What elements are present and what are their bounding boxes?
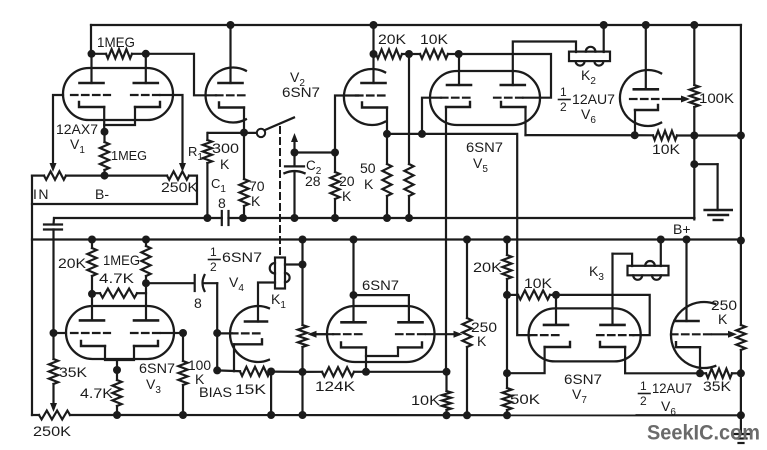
resistor R1 300K	[203, 133, 212, 218]
dashed link switch-K1	[279, 127, 281, 257]
svg-text:70: 70	[249, 178, 265, 194]
wire LL left grid lead	[312, 333, 334, 335]
label 250K (bottom left)	[33, 423, 72, 439]
wire 15K right	[270, 370, 271, 372]
wire 124K rail right	[366, 371, 447, 373]
relay K2	[569, 47, 610, 66]
node center pot on bus3	[463, 236, 471, 244]
wire cathode rail to V7a grid	[387, 134, 530, 335]
tube V3 left cathode	[81, 341, 105, 346]
tube 6SN7 LL right cathode	[398, 342, 422, 347]
wire V1 plate to V2a grid	[146, 54, 216, 96]
wire BIAS to 15K	[217, 369, 240, 372]
svg-text:R1: R1	[188, 144, 203, 163]
potentiometer 250K center body	[462, 318, 471, 347]
node LL plates junction	[350, 291, 358, 299]
label 35K (left)	[59, 364, 88, 380]
wire V1b grid lead	[173, 95, 183, 167]
resistor 100K (grid leak)	[178, 333, 187, 415]
node B- junction	[101, 172, 109, 180]
label 12AU7 (top)	[572, 91, 615, 107]
capacitor C2	[285, 153, 305, 219]
wire bus4	[32, 414, 741, 416]
tube V8 envelope	[671, 302, 715, 368]
label 100K	[699, 90, 735, 106]
node LL cathode junction	[362, 368, 370, 376]
arrow to switch blade	[291, 133, 298, 153]
label 1MEG (V3)	[103, 252, 140, 268]
label 124K	[315, 378, 356, 394]
wire LL cathodes join	[366, 347, 398, 371]
node 50K on bus4	[503, 411, 511, 419]
tube V7 left plate	[544, 324, 568, 327]
node K3 on bus3	[657, 236, 665, 244]
svg-text:35K: 35K	[59, 364, 88, 380]
svg-text:V6: V6	[581, 106, 596, 126]
node right border 35K	[737, 369, 745, 377]
label 8 (C1)	[218, 195, 226, 211]
label B-	[95, 186, 109, 202]
label K (70K)	[251, 193, 261, 209]
node 15K right	[267, 368, 275, 376]
svg-text:1: 1	[640, 379, 647, 393]
svg-text:1: 1	[210, 245, 217, 259]
potentiometer 250K wiper	[179, 163, 186, 172]
wire V4 plate to K1	[258, 283, 275, 322]
label 1MEG (top)	[97, 34, 135, 50]
svg-text:28: 28	[305, 173, 321, 189]
node 50K cathode tap	[503, 369, 511, 377]
label 10K (lower)	[411, 392, 441, 408]
svg-text:2: 2	[560, 100, 567, 114]
label 10K (V6b)	[652, 141, 681, 157]
tube V6b cathode	[635, 105, 658, 110]
wire to V4 grid	[216, 283, 218, 370]
wire 100K top	[693, 25, 695, 85]
wire V7b plate to K3	[613, 254, 633, 325]
node switch junction	[240, 129, 248, 137]
tube V5 right grid	[494, 97, 540, 99]
label IN	[33, 186, 50, 202]
wire V3 cathodes join	[105, 346, 134, 370]
label V6 (bottom)	[661, 398, 676, 418]
node V2a plate on bus	[227, 21, 235, 29]
label V5	[473, 155, 488, 175]
label 1/2 (V6 top)	[559, 85, 571, 114]
wire K1 branch to bus4	[301, 372, 303, 415]
watermark SeekIC.com	[647, 421, 760, 445]
capacitor interstage left	[44, 225, 62, 334]
svg-text:K: K	[364, 176, 374, 192]
svg-text:250K: 250K	[33, 423, 72, 439]
node 20K top bus3	[503, 236, 511, 244]
potentiometer 250K body (bottom left)	[39, 411, 70, 420]
svg-text:6SN7: 6SN7	[466, 139, 503, 155]
resistor 35K (V8)	[700, 369, 741, 378]
tube V7 right cathode	[600, 342, 625, 347]
node 20K top on bus3	[88, 236, 96, 244]
resistor 10K (V7)	[507, 290, 556, 299]
tube V3 envelope	[66, 306, 174, 359]
potentiometer 250K right wiper	[712, 331, 737, 338]
wire 250K return	[32, 176, 197, 204]
potentiometer 250K body	[167, 171, 189, 179]
potentiometer 100K wiper	[663, 96, 690, 103]
node 4.7K left	[88, 290, 96, 298]
node LL plate on bus3	[350, 236, 358, 244]
tube V6b envelope	[620, 70, 661, 126]
svg-text:10K: 10K	[652, 141, 681, 157]
label R1	[188, 144, 203, 163]
svg-text:SeekIC.com: SeekIC.com	[647, 421, 760, 445]
node right border bus3	[737, 237, 745, 245]
capacitor 8 (coupling)	[195, 275, 205, 291]
svg-text:V1: V1	[70, 136, 85, 156]
wire to V5b grid	[459, 54, 551, 98]
tube V5 left grid	[441, 97, 471, 99]
node 100K on bus4	[179, 411, 187, 419]
wire center pot upper	[466, 240, 468, 319]
tube V5 right plate	[501, 84, 525, 87]
node ground tap	[690, 160, 698, 168]
wire V8 plate lead	[685, 240, 687, 322]
svg-text:V5: V5	[473, 155, 488, 175]
node center pot on bus4	[463, 411, 471, 419]
svg-text:15K: 15K	[235, 381, 267, 397]
node V2b plate on bus	[370, 21, 378, 29]
wire right border	[740, 25, 742, 416]
svg-text:K: K	[251, 193, 261, 209]
wire K1 branch lower	[301, 347, 303, 372]
node 100K on top bus	[690, 21, 698, 29]
node K1 branch on bus4	[299, 411, 307, 419]
label K (50K V2b)	[364, 176, 374, 192]
label V1	[70, 136, 85, 156]
svg-text:300: 300	[212, 140, 239, 156]
node K1 branch on bus3	[299, 236, 307, 244]
tube V2a plate	[219, 82, 243, 85]
tube V1 left plate	[80, 54, 104, 83]
svg-text:12AU7: 12AU7	[572, 91, 615, 107]
relay K3	[628, 261, 669, 280]
wire 15K drop to bus4	[270, 372, 272, 416]
label K3	[589, 263, 604, 283]
label 20K (row)	[378, 31, 407, 47]
label K1	[271, 291, 286, 311]
tube 6SN7 LL right grid	[396, 333, 426, 335]
wire V1 cathodes to 1MEG	[104, 107, 135, 132]
relay K1	[270, 258, 290, 289]
label 1MEG (V1 cathode)	[111, 148, 147, 163]
wire cross-couple to V7b grid	[556, 295, 650, 335]
label V4	[229, 274, 244, 294]
wire K2 to top bus	[603, 25, 605, 52]
node 10K top junction	[443, 368, 451, 376]
tube V3 right cathode	[134, 341, 158, 346]
node right border bus4	[737, 411, 745, 419]
label 28	[305, 173, 321, 189]
tube V1 left cathode	[79, 102, 104, 107]
label 1/2 (V4)	[209, 245, 221, 274]
node 4.7K on bus4	[113, 411, 121, 419]
wire LL plates tie	[354, 240, 409, 323]
resistor 1MEG (V3)	[141, 240, 150, 284]
tube V3 left plate	[80, 319, 104, 322]
svg-text:6SN7: 6SN7	[282, 84, 320, 100]
wire ground tap	[694, 164, 717, 210]
svg-text:10K: 10K	[524, 275, 553, 291]
svg-text:2: 2	[210, 260, 217, 274]
wire top bus	[91, 25, 741, 54]
svg-text:C1: C1	[211, 176, 226, 195]
svg-text:250K: 250K	[161, 179, 199, 195]
resistor 20K (V7)	[502, 240, 511, 295]
svg-text:K: K	[718, 311, 728, 327]
svg-text:10K: 10K	[411, 392, 441, 408]
label 50K (V7)	[510, 391, 541, 407]
svg-text:8: 8	[194, 295, 202, 311]
label B+	[673, 221, 691, 237]
wire V2b plate lead	[372, 25, 374, 83]
label 250 (center)	[471, 319, 497, 335]
node 20K left	[370, 50, 378, 58]
node V8 plate on bus3	[683, 236, 691, 244]
wire V2b grid lead	[335, 96, 358, 153]
ground symbol (bottom right)	[733, 415, 750, 443]
node 10K right	[690, 132, 698, 140]
node K2 on top bus	[600, 21, 608, 29]
tube V2b plate	[362, 82, 386, 85]
node K1 right	[299, 261, 307, 269]
wire K1 branch upper	[301, 240, 303, 326]
node cap8 line	[142, 279, 150, 287]
tube V8 plate	[675, 320, 699, 323]
resistor 50K (V2b cathode)	[382, 134, 391, 218]
potentiometer bias body	[298, 325, 307, 347]
potentiometer 250K (bottom left) wiper	[50, 403, 57, 412]
node 10K on bus4	[443, 411, 451, 419]
potentiometer 250K right body	[736, 325, 745, 350]
wire V6b cathode lead	[634, 110, 636, 135]
label 10K (row)	[420, 31, 449, 47]
svg-text:V3: V3	[146, 376, 161, 396]
svg-text:8: 8	[218, 195, 226, 211]
label 12AX7	[56, 121, 98, 137]
svg-text:B+: B+	[673, 221, 691, 237]
label V7	[572, 386, 587, 406]
wire V5b cathode lead	[524, 107, 526, 135]
svg-text:35K: 35K	[703, 378, 732, 394]
svg-text:1MEG: 1MEG	[111, 148, 147, 163]
label BIAS	[199, 384, 232, 400]
tube 6SN7 LL right plate	[399, 321, 423, 324]
wire V8 cathode lead	[699, 347, 701, 373]
wire V7b cathode lead	[625, 347, 700, 373]
wire V3b grid lead	[174, 332, 183, 334]
tube V7 envelope	[529, 308, 641, 361]
resistor 10K (lower)	[442, 372, 451, 416]
tube V7 left grid	[530, 334, 560, 336]
tube V8 grid	[671, 333, 713, 335]
potentiometer IN body	[44, 171, 66, 179]
label 250 (right)	[711, 297, 737, 313]
svg-text:1MEG: 1MEG	[103, 252, 140, 268]
tube V3 right plate	[134, 319, 158, 322]
tube V2a envelope	[206, 68, 246, 123]
wire left border	[31, 176, 33, 415]
tube V1 envelope	[63, 68, 173, 120]
node V1 plate-right junction	[142, 50, 150, 58]
node 20K/10K junction	[405, 50, 413, 58]
resistor 4.7K (plates)	[92, 289, 146, 298]
wire V5a cathode drop	[445, 107, 447, 372]
wire cap8 line	[146, 282, 217, 284]
svg-text:IN: IN	[33, 186, 50, 202]
svg-text:20K: 20K	[473, 259, 503, 275]
svg-text:20K: 20K	[58, 255, 87, 271]
tube 6SN7 LL left plate	[342, 321, 366, 324]
svg-text:6SN7: 6SN7	[362, 277, 399, 293]
label 70	[249, 178, 265, 194]
wire bus2 left end	[52, 218, 55, 225]
tube V4 grid	[231, 332, 263, 334]
tube V2a cathode	[219, 103, 244, 108]
tube V4 cathode	[234, 339, 262, 344]
svg-text:BIAS: BIAS	[199, 384, 232, 400]
tube V1 left grid	[71, 94, 110, 96]
node V8 cathode junction	[696, 369, 704, 377]
resistor junction bleeder	[404, 164, 413, 218]
svg-text:K2: K2	[581, 67, 596, 87]
tube V2b cathode	[362, 103, 387, 108]
wire V3b plate lead	[145, 283, 147, 320]
tube V5 left plate	[447, 84, 471, 87]
resistor 20K (V3)	[87, 240, 96, 294]
node C2 top	[291, 149, 299, 157]
node V1 cathode junction	[101, 128, 109, 136]
tube V8 cathode	[676, 342, 700, 347]
label K2	[581, 67, 596, 87]
node V2b cathode	[383, 130, 391, 138]
node V3 cathode junction	[113, 366, 121, 374]
svg-text:K1: K1	[271, 291, 286, 311]
label V6 (top)	[581, 106, 596, 126]
svg-text:K: K	[342, 188, 352, 204]
node V6b cathode junction	[631, 131, 639, 139]
tube V1 right plate	[134, 54, 158, 83]
node V7a plate junction	[552, 291, 560, 299]
label 6SN7 (lower left)	[362, 277, 399, 293]
label 300	[212, 140, 239, 156]
arrow LL right grid	[454, 331, 463, 338]
tube V5 envelope	[430, 71, 540, 125]
tube V2a grid	[216, 94, 245, 96]
wire V2b cathode lead	[386, 108, 388, 134]
node pot bottom junction	[299, 368, 307, 376]
label K (300K)	[220, 156, 230, 172]
label 20K (V7)	[473, 259, 503, 275]
svg-text:1: 1	[560, 85, 567, 99]
svg-text:50: 50	[360, 160, 376, 176]
wire C2 top node	[295, 151, 336, 153]
svg-text:K: K	[477, 333, 487, 349]
node 20K bottom junction	[503, 291, 511, 299]
wire 20K10K junction down	[408, 54, 410, 164]
wire 100K bottom	[693, 107, 695, 219]
svg-text:6SN7: 6SN7	[222, 249, 262, 265]
label K (right)	[718, 311, 728, 327]
wire center pot lower	[466, 347, 468, 415]
wire V7a cathode lead	[507, 347, 545, 373]
resistor 4.7K (V3 cathode)	[112, 370, 121, 415]
wire V5a grid lead	[422, 98, 441, 134]
resistor 1MEG (top)	[92, 49, 146, 58]
label K (center)	[477, 333, 487, 349]
wire bus3	[32, 238, 741, 240]
label V3	[146, 376, 161, 396]
switch contact pivot	[257, 129, 265, 137]
label 6SN7 (V5)	[466, 139, 503, 155]
potentiometer bias wiper	[308, 331, 328, 338]
wire LL right grid lead	[426, 333, 459, 335]
wire bus2	[54, 217, 695, 219]
wire right cathode rail	[526, 134, 741, 137]
node 10K right junction	[455, 50, 463, 58]
node 70K on bus2	[239, 214, 247, 222]
label 6SN7 (V7)	[564, 371, 602, 387]
capacitor C1	[222, 211, 229, 225]
node V5a grid tap	[418, 130, 426, 138]
label C2	[306, 158, 322, 177]
tube V1 right grid	[131, 94, 173, 96]
wire V5b plate to K2	[513, 42, 576, 86]
potentiometer 100K body	[690, 85, 699, 107]
node V6b plate on bus	[642, 21, 650, 29]
node V3b grid junction	[179, 329, 187, 337]
svg-text:50K: 50K	[510, 391, 541, 407]
svg-text:V4: V4	[229, 274, 244, 294]
label C1	[211, 176, 226, 195]
label 20 (C2)	[339, 173, 355, 189]
resistor 124K	[303, 367, 367, 376]
svg-text:10K: 10K	[420, 31, 449, 47]
tube V5 left cathode	[446, 102, 470, 107]
tube 6SN7 LL left cathode	[341, 342, 366, 347]
resistor 35K (left)	[49, 333, 58, 408]
svg-text:20K: 20K	[378, 31, 407, 47]
label K (grid leak)	[195, 371, 205, 387]
node 1MEG top on bus3	[142, 236, 150, 244]
label 35K (V8)	[703, 378, 732, 394]
svg-text:4.7K: 4.7K	[99, 270, 135, 286]
label 6SN7 (V4)	[222, 249, 262, 265]
svg-text:20: 20	[339, 173, 355, 189]
switch blade	[265, 118, 295, 131]
label 12AU7 (bottom)	[652, 380, 692, 396]
tube 6SN7 lower-left envelope	[327, 306, 435, 362]
label 6SN7 (V2)	[282, 84, 320, 100]
svg-text:1MEG: 1MEG	[97, 34, 135, 50]
node rail on right border	[737, 132, 745, 140]
label K (C2 20K)	[342, 188, 352, 204]
node 50K on bus2	[383, 214, 391, 222]
resistor 20K (C2)	[330, 153, 339, 219]
svg-text:2: 2	[640, 394, 647, 408]
tube V3 left grid	[71, 332, 110, 334]
tube V2b grid	[356, 94, 389, 96]
label 4.7K (V3 cathode)	[80, 385, 114, 401]
resistor 1MEG (V1 cathode)	[100, 132, 109, 176]
